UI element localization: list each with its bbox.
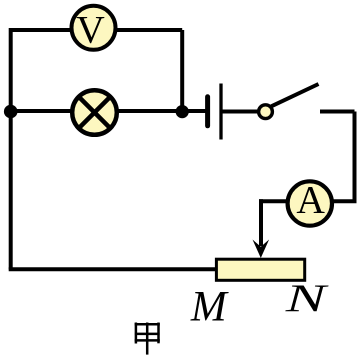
junction node: left xyxy=(4,105,18,119)
junction node: below battery branch xyxy=(176,105,189,118)
wire: battery to switch xyxy=(222,110,258,114)
svg-text:V: V xyxy=(76,8,105,52)
ammeter U (A) xyxy=(288,178,332,226)
wire: vertical from top wire to lamp-row junction xyxy=(180,30,184,111)
wire: switch right contact xyxy=(320,110,355,114)
switch S: blade xyxy=(271,84,318,106)
svg-text:A: A xyxy=(296,178,325,222)
wire: top left horizontal (node to voltmeter row) xyxy=(11,28,183,32)
rheostat slider arrowhead xyxy=(253,240,270,259)
wire: vertical down to rheostat slider arrow xyxy=(259,199,263,246)
wire: left vertical xyxy=(9,28,13,270)
svg-text:N: N xyxy=(285,276,330,320)
rheostat R (resistor box) xyxy=(216,259,304,280)
lamp L xyxy=(72,90,117,135)
battery: short plate (negative) xyxy=(205,97,210,126)
wire: right vertical down to ammeter xyxy=(353,112,357,202)
wire: ammeter right lead xyxy=(332,199,357,203)
voltmeter U (V) xyxy=(72,6,116,52)
wire: bottom horizontal xyxy=(9,267,218,271)
battery: long plate (positive) xyxy=(219,84,222,140)
svg-text:M: M xyxy=(190,283,229,330)
switch S: pivot circle xyxy=(259,105,273,119)
caption 甲 (drawn glyph) xyxy=(135,323,160,355)
wire: ammeter left lead xyxy=(259,199,288,203)
wire: lamp row horizontal xyxy=(11,109,206,113)
